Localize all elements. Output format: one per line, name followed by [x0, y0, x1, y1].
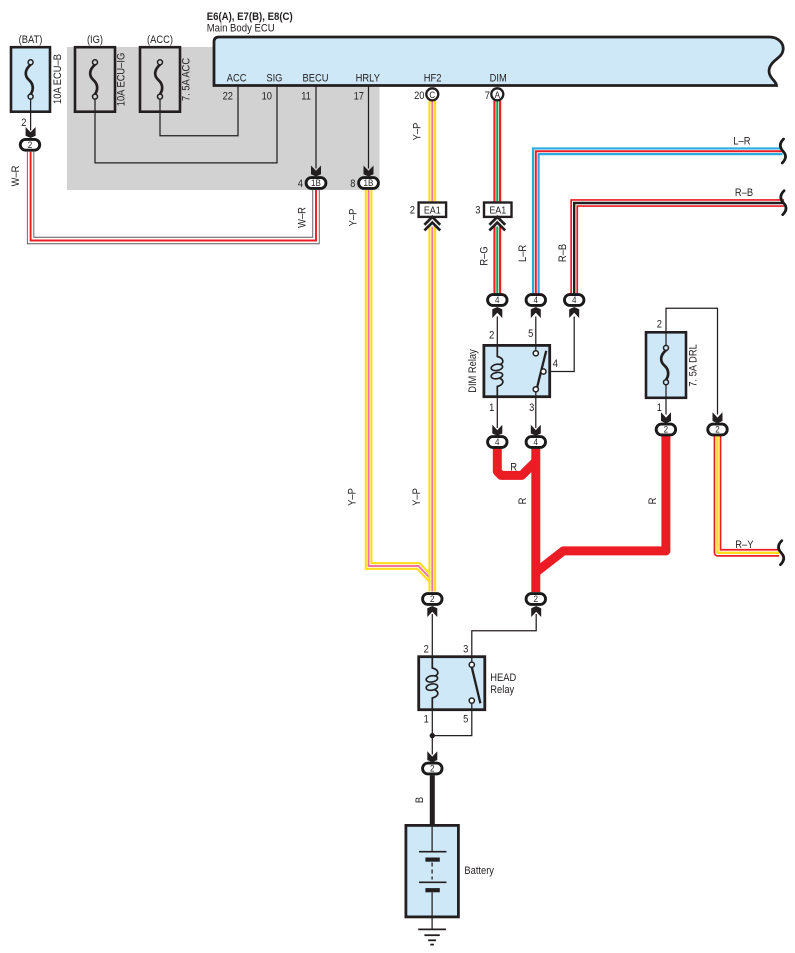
wire Y-P EA1 to connector 2: [411, 227, 432, 592]
svg-text:HRLY: HRLY: [356, 73, 381, 85]
connector EA1 (3) with shield chevrons: [475, 203, 511, 231]
svg-text:20: 20: [414, 90, 424, 102]
svg-text:2: 2: [430, 594, 435, 605]
wire W-R BAT to BECU 1B: [10, 152, 316, 241]
connector 4 (R-B): [565, 295, 584, 307]
svg-text:SIG: SIG: [266, 73, 282, 85]
svg-text:W–R: W–R: [10, 166, 22, 187]
svg-text:2: 2: [430, 764, 435, 775]
svg-text:C: C: [429, 90, 435, 101]
svg-text:2: 2: [28, 140, 33, 151]
svg-text:R–G: R–G: [479, 246, 491, 265]
wire R-Y to right edge: [718, 436, 780, 553]
svg-text:4: 4: [495, 295, 500, 306]
connector 2 (battery side): [423, 763, 442, 775]
connector 2 (DRL pin 1): [656, 424, 675, 436]
wire DRL fuse pin 1 to connector 2: [657, 398, 671, 424]
svg-text:HF2: HF2: [424, 73, 442, 85]
wire Y-P HF2 to EA1: [411, 100, 432, 202]
svg-text:2: 2: [715, 425, 720, 436]
connector 1B (8) HRLY: [350, 178, 378, 190]
svg-text:3: 3: [529, 402, 534, 414]
svg-text:E6(A), E7(B), E8(C): E6(A), E7(B), E8(C): [207, 11, 293, 23]
svg-text:R: R: [647, 498, 659, 505]
svg-text:7. 5A DRL: 7. 5A DRL: [688, 344, 700, 387]
svg-text:11: 11: [301, 91, 311, 103]
svg-text:Battery: Battery: [464, 865, 494, 877]
wire HEAD relay pins 1 and 5 to junction: [432, 710, 472, 736]
svg-text:(BAT): (BAT): [19, 34, 43, 46]
ECU pin 7 DIM connector A: [485, 73, 507, 103]
svg-text:2: 2: [534, 594, 539, 605]
fuse (IG) 10A ECU-IG: [75, 34, 128, 112]
connector 4 (DIM pin 3): [526, 437, 545, 449]
svg-text:B: B: [414, 797, 426, 803]
svg-text:R–B: R–B: [557, 244, 569, 262]
svg-text:2: 2: [489, 330, 494, 342]
harness shield panel: [67, 47, 380, 190]
svg-text:R–B: R–B: [735, 187, 753, 199]
wire ACC fuse to ECU pin ACC: [160, 86, 238, 136]
svg-text:4: 4: [534, 437, 539, 448]
svg-text:(IG): (IG): [87, 34, 103, 46]
wire IG fuse to ECU pin SIG: [95, 86, 277, 163]
svg-text:BECU: BECU: [303, 73, 329, 85]
svg-text:3: 3: [475, 205, 480, 217]
wire R thick from DRL fuse branch: [537, 436, 666, 572]
connector circle C on pin HF2: [426, 88, 438, 101]
wire DIM relay pin 2 to connector 4: [492, 307, 502, 345]
wire ECU pin HRLY to connector 1B: [368, 86, 370, 169]
svg-text:W–R: W–R: [297, 207, 309, 228]
wire B battery feed: [414, 775, 432, 825]
continuation mark R-Y: [778, 541, 783, 565]
wire R thick from DIM pin1 connector joining main run: [497, 446, 536, 475]
svg-text:L–R: L–R: [517, 245, 529, 262]
svg-text:Relay: Relay: [490, 684, 514, 696]
ground: [418, 917, 446, 945]
svg-text:7. 5A ACC: 7. 5A ACC: [181, 58, 193, 101]
DIM relay U1: [467, 328, 558, 414]
svg-text:HEAD: HEAD: [490, 672, 516, 684]
svg-text:8: 8: [350, 178, 355, 190]
fuse (BAT) 10A ECU-B: [11, 34, 64, 112]
junction node: [430, 733, 435, 738]
wire DIM relay pin 1 to connector 4: [492, 397, 502, 436]
svg-text:4: 4: [572, 295, 577, 306]
battery BT1: [406, 825, 495, 917]
continuation mark R-B: [781, 191, 786, 215]
connector 4 (DIM pin 1): [488, 437, 507, 449]
connector 2 (BAT): [20, 139, 39, 151]
svg-text:7: 7: [485, 90, 490, 102]
svg-text:ACC: ACC: [227, 73, 247, 85]
svg-text:Y–P: Y–P: [346, 488, 358, 506]
wire R-B from right edge to connector 4: [557, 187, 784, 294]
svg-text:L–R: L–R: [733, 136, 750, 148]
connector 2 (Y-P above HEAD relay): [423, 594, 442, 606]
connector 2 (R-Y): [708, 424, 727, 436]
svg-text:17: 17: [354, 91, 364, 103]
svg-text:5: 5: [463, 714, 468, 726]
wire R thick main vertical run: [517, 446, 536, 592]
wire R-G DIM to EA1: [493, 100, 501, 202]
svg-text:4: 4: [298, 178, 303, 190]
svg-text:1: 1: [657, 402, 662, 414]
continuation mark L-R: [780, 139, 785, 163]
connector EA1 (2) with shield chevrons: [410, 203, 446, 231]
wire HEAD relay pin 3 to connector 2: [472, 606, 541, 657]
wire DIM relay pin 3 to connector 4: [531, 397, 541, 436]
svg-text:2: 2: [664, 425, 669, 436]
svg-text:10: 10: [262, 91, 272, 103]
svg-text:DIM Relay: DIM Relay: [467, 349, 479, 393]
svg-text:EA1: EA1: [424, 205, 441, 217]
svg-text:4: 4: [534, 295, 539, 306]
svg-text:10A ECU–B: 10A ECU–B: [52, 54, 64, 104]
wire ECU pin BECU to connector 1B: [315, 86, 317, 169]
svg-text:3: 3: [463, 644, 468, 656]
connector 1B (4) BECU: [298, 178, 326, 190]
wire BAT fuse pin 2 to connector: [21, 112, 35, 138]
svg-text:Y–P: Y–P: [411, 123, 423, 141]
svg-text:R: R: [510, 462, 517, 474]
svg-text:Y–P: Y–P: [348, 209, 360, 227]
HEAD relay U2: [419, 644, 517, 726]
svg-text:10A ECU–IG: 10A ECU–IG: [116, 53, 128, 107]
connector 2 (R above HEAD relay): [526, 594, 545, 606]
ECU pin 20 HF2 connector C: [414, 73, 441, 103]
connector circle A on pin DIM: [491, 88, 503, 101]
wire junction to connector 2 (battery): [427, 736, 437, 763]
svg-text:2: 2: [657, 319, 662, 331]
svg-text:2: 2: [424, 644, 429, 656]
svg-text:1B: 1B: [364, 178, 374, 189]
svg-text:R: R: [517, 498, 529, 505]
wire HEAD relay pin 2 to connector 2: [427, 606, 437, 657]
svg-text:EA1: EA1: [489, 205, 506, 217]
svg-text:R–Y: R–Y: [735, 539, 754, 551]
svg-text:Y–P: Y–P: [411, 488, 423, 506]
fuse (ACC) 7.5A ACC: [140, 34, 193, 112]
svg-text:4: 4: [553, 358, 558, 370]
svg-text:2: 2: [410, 205, 415, 217]
svg-text:5: 5: [528, 328, 533, 340]
wire DRL fuse pin 2 loop to connector 2: [657, 308, 723, 423]
wire R-G EA1 to connector 4: [479, 227, 498, 294]
svg-text:Main Body ECU: Main Body ECU: [207, 23, 275, 35]
svg-text:1: 1: [489, 402, 494, 414]
wire L-R from right edge to connector 4: [517, 136, 783, 294]
svg-text:(ACC): (ACC): [147, 34, 173, 46]
wire DIM relay pin 5 to connector 4: [531, 307, 541, 345]
svg-text:22: 22: [223, 91, 233, 103]
fuse 7.5A DRL: [646, 332, 700, 398]
svg-text:DIM: DIM: [490, 73, 507, 85]
connector 4 (R-G): [488, 295, 507, 307]
svg-text:1B: 1B: [311, 178, 321, 189]
wire DIM relay pin 4 to connector 4: [550, 307, 579, 372]
wire Y-P HRLY to head relay branch: [346, 190, 432, 581]
svg-text:A: A: [495, 90, 501, 101]
svg-text:4: 4: [495, 437, 500, 448]
Main Body ECU block E6(A), E7(B), E8(C): [207, 11, 783, 86]
connector 4 (L-R): [526, 295, 545, 307]
svg-text:1: 1: [424, 714, 429, 726]
